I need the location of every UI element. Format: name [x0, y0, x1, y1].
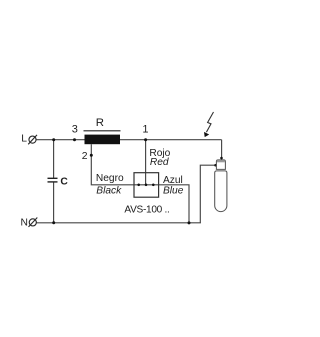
svg-text:Negro: Negro: [96, 173, 124, 184]
node 1: [142, 124, 148, 142]
terminal N: [21, 218, 38, 229]
junction lamp top: [220, 157, 223, 160]
svg-text:2: 2: [82, 151, 88, 162]
node 2: [82, 151, 93, 162]
wire lamp side return: [200, 165, 216, 223]
wire node2 drop to ignitor black: [91, 144, 134, 185]
terminal L: [21, 134, 37, 145]
svg-text:Azul: Azul: [163, 175, 183, 186]
junction N-capacitor: [52, 221, 55, 224]
wire capacitor branch lower: [53, 182, 55, 223]
svg-text:1: 1: [142, 124, 148, 136]
wire capacitor branch upper: [53, 140, 55, 179]
ballast R: [84, 117, 121, 144]
wire L line (top horizontal): [36, 139, 221, 141]
junction N-blue: [188, 221, 191, 224]
lamp bulb: [215, 171, 227, 212]
ignitor terminal pin red: [145, 184, 148, 187]
wire ignitor through line and blue lead: [134, 185, 189, 223]
svg-text:Blue: Blue: [163, 185, 184, 196]
wire lamp top drop: [221, 140, 223, 160]
svg-text:C: C: [60, 177, 68, 188]
svg-text:3: 3: [72, 123, 78, 135]
svg-text:Black: Black: [96, 185, 122, 196]
high-voltage lightning arrow: [204, 112, 214, 137]
svg-text:AVS-100 ..: AVS-100 ..: [124, 205, 169, 216]
svg-text:L: L: [21, 134, 27, 145]
node 3: [72, 123, 78, 141]
capacitor C: [48, 177, 69, 188]
ignitor terminal pin black: [137, 184, 140, 187]
junction lamp side: [214, 164, 217, 167]
junction L-capacitor: [52, 138, 55, 141]
lamp cap: [216, 160, 225, 170]
wire node1 to ignitor red: [145, 140, 147, 185]
svg-text:N: N: [21, 218, 28, 229]
svg-text:Red: Red: [150, 157, 169, 168]
ignitor U1 box AVS-100: [134, 173, 159, 198]
wire N line: [37, 222, 201, 224]
ignitor terminal pin blue: [152, 184, 155, 187]
svg-text:R: R: [96, 117, 104, 129]
